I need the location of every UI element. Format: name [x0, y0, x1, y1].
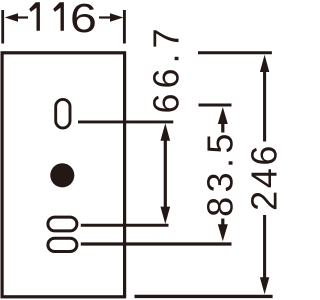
mounting slot (top capsule) — [56, 99, 70, 128]
dim 116 right arrow — [110, 13, 123, 21]
dim 246 line with arrows — [260, 55, 269, 72]
dim 116 left extension tick — [1, 10, 4, 44]
top extension line — [198, 51, 272, 54]
plate outline — [2, 53, 125, 297]
svg-text:66.7: 66.7 — [146, 23, 187, 113]
slot center leader line — [78, 120, 173, 123]
dim 83.5 top extension tick — [199, 104, 232, 107]
dim 116 right extension tick — [123, 10, 126, 44]
svg-text:6: 6 — [70, 0, 97, 41]
upper oval leader line — [81, 224, 169, 227]
dim 83.5 line with arrows — [218, 107, 228, 124]
dim 66.7 line with arrows — [164, 138, 167, 209]
svg-text:83.5: 83.5 — [200, 129, 241, 217]
svg-text:246: 246 — [244, 143, 285, 211]
bottom extension line — [135, 295, 273, 298]
dim text 116 — [29, 2, 64, 31]
lower oval leader line — [81, 242, 232, 245]
knockout hole (filled circle) — [50, 163, 74, 187]
upper oval hole — [48, 217, 77, 231]
dim 116 left arrow — [5, 13, 18, 21]
lower oval hole — [48, 238, 77, 251]
